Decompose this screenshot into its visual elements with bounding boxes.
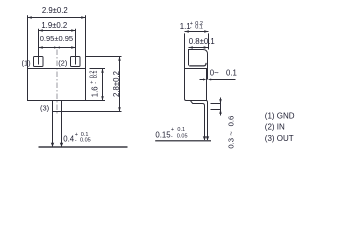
pin 3 right leg line <box>61 112 63 147</box>
svg-text:-: - <box>190 24 192 30</box>
seating plane (front view) <box>39 146 128 148</box>
extension line left 1.9 (pin1 center) <box>38 29 40 65</box>
svg-text:+: + <box>171 127 174 133</box>
0.3~0.6 dimension line with outside arrows <box>219 98 222 116</box>
dimension line 2.8 (vertical) <box>118 57 121 112</box>
0.4 dimension arrows <box>51 143 54 147</box>
seating plane (side view) <box>155 140 211 142</box>
svg-text:(3): (3) <box>40 104 50 113</box>
svg-text:(2) IN: (2) IN <box>265 122 285 131</box>
svg-text:0.4: 0.4 <box>63 135 75 144</box>
label (2) <box>58 58 68 67</box>
0.15 arrows at leg bottoms <box>203 136 206 140</box>
lead leg right line (side view) <box>207 105 209 141</box>
svg-text:(1): (1) <box>22 58 32 67</box>
dimension text 0.3~0.6 (rotated) <box>226 116 235 149</box>
dimension text 1.6 +0.2/-0.1 (rotated) <box>90 71 100 98</box>
legend (3) OUT <box>265 134 294 143</box>
pin 2 (front view) <box>71 57 81 67</box>
upper lead outline (side view) <box>189 50 208 80</box>
dimension line 0.95 <box>39 46 76 49</box>
dimension text 0.4 +0.1/-0.05 <box>63 132 90 144</box>
1.6 top extension line <box>90 68 106 70</box>
2.8 top extension line <box>86 56 122 58</box>
svg-text:(1) GND: (1) GND <box>265 111 295 120</box>
extension line right 1.9 (pin2 center) <box>75 29 77 65</box>
lower lead outer bend (side view) <box>207 101 208 105</box>
label (3) <box>40 104 50 113</box>
center line (front view) <box>56 50 58 115</box>
dimension text 0.15 +0.1/-0.05 <box>155 127 187 139</box>
dimension text 1.1 +0.2/-0.1 (side view) <box>180 21 203 31</box>
svg-text:0~: 0~ <box>210 69 219 78</box>
package body (side view) <box>185 69 207 101</box>
0.3~0.6 top leader <box>211 103 221 105</box>
lower lead strip bottom edge with step (side view) <box>191 101 205 106</box>
svg-text:0.95±0.95: 0.95±0.95 <box>40 34 73 43</box>
dimension line 1.6 (vertical) <box>101 69 104 101</box>
svg-text:0.3 ~: 0.3 ~ <box>226 131 235 149</box>
1.1 right extension line <box>208 33 210 49</box>
svg-text:2.8±0.2: 2.8±0.2 <box>112 71 121 97</box>
1.6 bottom extension line (body bottom extended) <box>86 100 106 102</box>
dimension line 1.9 <box>39 29 76 32</box>
svg-text:1.9±0.2: 1.9±0.2 <box>41 21 67 30</box>
0.3~0.6 bottom leader <box>211 109 221 111</box>
svg-text:1.6: 1.6 <box>91 86 100 97</box>
svg-text:0.05: 0.05 <box>80 137 91 143</box>
svg-text:0.05: 0.05 <box>177 133 188 139</box>
dimension text 0.8±0.1 (side view) <box>189 37 215 46</box>
svg-text:0.1: 0.1 <box>93 71 99 79</box>
upper lead bottom edge (side view) <box>189 63 206 66</box>
dimension text 2.8±0.2 (rotated) <box>112 71 121 97</box>
dimension line 2.9 <box>28 16 86 19</box>
svg-text:(2): (2) <box>58 58 68 67</box>
package body (front view) <box>28 69 86 101</box>
svg-text:-: - <box>75 137 77 143</box>
legend (1) GND <box>265 111 295 120</box>
svg-text:0.6: 0.6 <box>226 116 235 127</box>
extension line left 2.9 <box>27 15 29 68</box>
svg-text:-: - <box>171 133 173 139</box>
dimension line 0.8 <box>189 46 209 49</box>
pin 3 bottom / 2.8 bottom extension line <box>53 111 122 113</box>
0~0.1 dimension (side view) <box>200 79 236 81</box>
svg-text:(3) OUT: (3) OUT <box>265 134 294 143</box>
svg-text:2.9±0.2: 2.9±0.2 <box>42 6 68 15</box>
svg-text:-: - <box>93 82 99 84</box>
dimension text 0.95±0.95 <box>40 34 73 43</box>
legend (2) IN <box>265 122 285 131</box>
1.1 left extension line <box>184 33 186 68</box>
svg-text:0.1: 0.1 <box>195 24 203 30</box>
pin 3 (front view) <box>53 101 62 112</box>
dimension text 0~ 0.1 <box>210 69 237 78</box>
extension line right 2.9 <box>85 15 87 68</box>
dimension line 1.1 <box>185 30 209 33</box>
dimension text 2.9±0.2 <box>42 6 68 15</box>
pin 3 left leg line <box>52 112 54 147</box>
dimension text 1.9±0.2 <box>41 21 67 30</box>
svg-text:0.8±0.1: 0.8±0.1 <box>189 37 215 46</box>
label (1) <box>22 58 32 67</box>
pin 1 (front view) <box>34 57 44 67</box>
lead leg left line (side view) <box>204 106 206 141</box>
svg-text:0.1: 0.1 <box>226 69 237 78</box>
svg-text:0.15: 0.15 <box>155 131 171 140</box>
svg-text:0.1: 0.1 <box>177 127 185 133</box>
